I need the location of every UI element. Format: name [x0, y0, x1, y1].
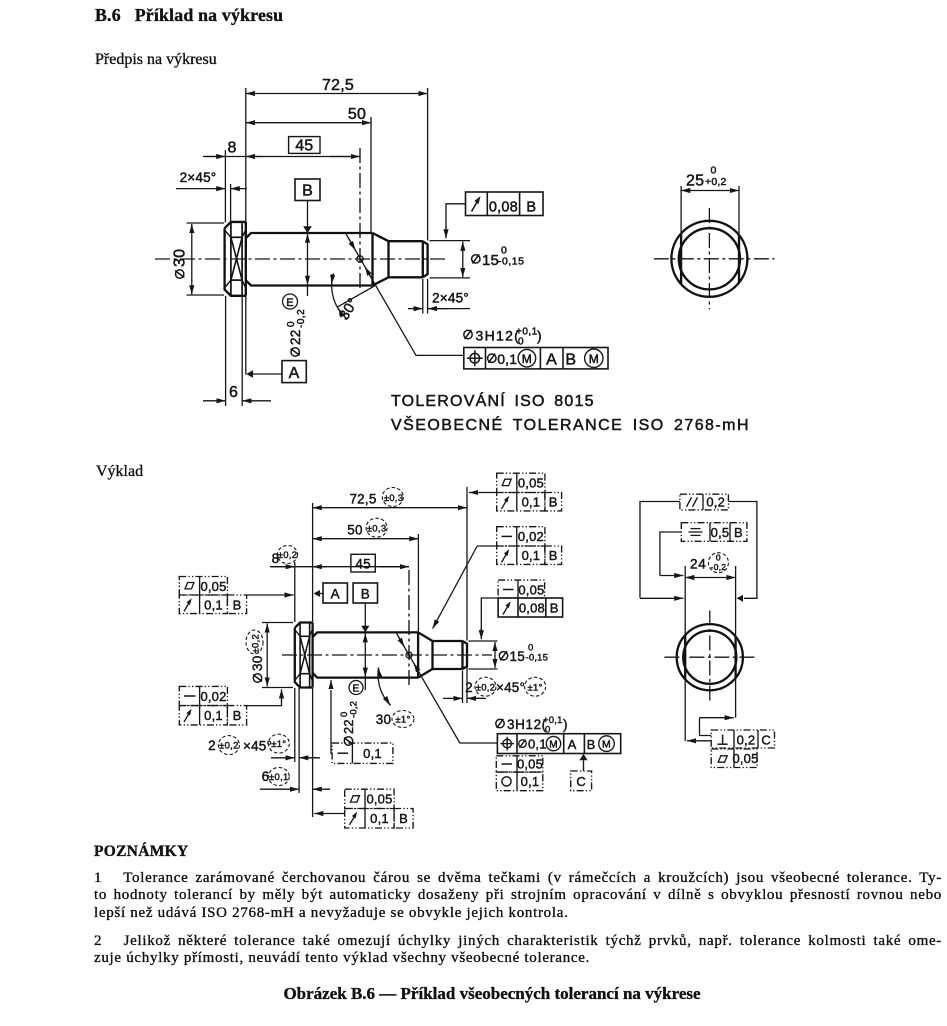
svg-text:±0,2: ±0,2: [219, 740, 239, 751]
d2 leader to position frame: [422, 678, 497, 743]
d2 chamfer dim left: [271, 757, 295, 759]
30deg ray: [338, 285, 376, 307]
d2 below frames straightness + roundness: [496, 756, 543, 791]
d2 leader frameA: [469, 492, 497, 494]
svg-text:72,5: 72,5: [322, 77, 354, 94]
circled M 2: [585, 349, 603, 367]
d2 diam22 cylinder: [313, 632, 419, 677]
shaft diam15 cylinder: [389, 241, 423, 277]
d2 leader frameB: [477, 545, 497, 547]
svg-text:15: 15: [482, 252, 499, 269]
svg-text:B: B: [565, 351, 576, 368]
dim 25: [681, 190, 739, 192]
svg-text:C: C: [761, 732, 771, 747]
datum A box: [282, 361, 306, 383]
svg-text:-0,15: -0,15: [526, 653, 549, 664]
frame3 flatness/runout bottom: [345, 789, 413, 828]
note 2: [94, 933, 942, 951]
d2 ext flange left: [294, 562, 296, 622]
svg-text:0,05: 0,05: [518, 476, 544, 491]
svg-text:): ): [537, 328, 542, 344]
chamfer 2x45 right ext lines: [422, 279, 424, 314]
svg-text:E: E: [286, 297, 294, 309]
svg-text:): ): [563, 717, 568, 732]
svg-text:B: B: [526, 199, 536, 215]
inclined hole axis: [346, 234, 376, 285]
svg-text:22: 22: [341, 719, 356, 734]
svg-text:0,05: 0,05: [366, 792, 392, 807]
svg-text:30°: 30°: [336, 296, 362, 324]
d2 dim diam15: [494, 642, 496, 668]
svg-text:M: M: [602, 739, 611, 751]
figure caption: [0, 984, 947, 1004]
d2 ext lines below flange: [294, 688, 296, 762]
d2 leader frame1: [247, 594, 294, 596]
extension line flange left face: [224, 150, 226, 223]
d2 leader parallel right + datum triangle: [728, 502, 757, 599]
svg-text:30: 30: [172, 249, 189, 267]
datum A lines: [225, 296, 227, 406]
svg-text:2: 2: [208, 738, 216, 753]
svg-text:A: A: [289, 365, 300, 382]
datum B box: [295, 179, 320, 201]
svg-text:±1°: ±1°: [395, 714, 410, 725]
svg-text:0,1: 0,1: [522, 495, 541, 510]
d2 datum A triangle: [314, 590, 320, 597]
30deg arc: [332, 273, 348, 319]
note 1: [94, 870, 942, 888]
d2 leader symmetry: [660, 532, 681, 576]
runout frame 0,08 B: [466, 192, 544, 216]
d2 datum B triangle: [361, 626, 369, 633]
d2 end view inner circle: [683, 631, 736, 684]
svg-text:B: B: [361, 586, 370, 601]
flange flat band edges: [231, 236, 242, 238]
diam symbol 15: [472, 254, 480, 263]
45 box: [289, 137, 320, 154]
svg-text:±0,2: ±0,2: [251, 634, 262, 654]
svg-text:0,1: 0,1: [528, 737, 547, 752]
svg-text:0: 0: [711, 165, 717, 177]
svg-text:8: 8: [227, 140, 236, 157]
d2 datum B stem: [364, 603, 366, 627]
d2 leader frameC: [481, 598, 498, 630]
POZNAMKY heading: [94, 843, 189, 861]
d2 bottom leader right flat: [700, 718, 712, 736]
svg-text:0,05: 0,05: [518, 582, 544, 597]
svg-text:25: 25: [686, 173, 704, 190]
svg-text:B: B: [587, 737, 596, 752]
d2 flange flat band edges: [300, 635, 310, 637]
edge at cone end: [387, 241, 389, 277]
d2 flange corner diagonals: [295, 630, 312, 680]
svg-text:B: B: [302, 183, 313, 200]
svg-text:0,08: 0,08: [519, 601, 545, 616]
svg-text:0,1: 0,1: [522, 548, 541, 563]
svg-text:±0,1: ±0,1: [269, 772, 289, 783]
subheading Vyklad: [96, 463, 143, 481]
rotated diam22: [286, 309, 307, 356]
svg-text:×45°: ×45°: [496, 680, 525, 695]
chamfer 2x45 right dim: [408, 308, 423, 310]
d2 end center lines: [664, 656, 755, 658]
svg-text:A: A: [546, 351, 557, 368]
svg-text:45: 45: [355, 556, 370, 571]
shaft diam22 cylinder: [246, 233, 373, 286]
d2 ext flange right: [312, 503, 314, 622]
svg-text:M: M: [522, 352, 532, 366]
d2 edge cone start: [417, 632, 419, 677]
d2 flats ext below: [684, 680, 686, 742]
svg-text:-0,15: -0,15: [498, 256, 524, 268]
svg-text:0,1: 0,1: [363, 746, 382, 761]
flat left: [680, 234, 682, 284]
svg-text:B: B: [734, 525, 743, 540]
svg-text:±0,3: ±0,3: [367, 523, 387, 534]
svg-text:0,1: 0,1: [204, 708, 223, 723]
d2 shaft flange outline: [295, 623, 313, 688]
datum A triangle: [246, 370, 253, 378]
svg-text:E: E: [352, 683, 359, 695]
d2 diam15 ext: [469, 640, 498, 642]
extension line right flange face: [245, 88, 247, 223]
svg-text:+0,2: +0,2: [705, 176, 727, 188]
dimension 72,5: [246, 93, 428, 95]
subheading Predpis: [95, 51, 217, 69]
svg-text:50: 50: [348, 106, 366, 123]
svg-text:0,2: 0,2: [737, 732, 756, 747]
svg-text:B: B: [549, 548, 558, 563]
svg-text:B: B: [549, 495, 558, 510]
svg-text:22: 22: [288, 330, 303, 345]
dimension 2x45 chamfer left: [176, 188, 225, 190]
d2 datum A box: [323, 583, 347, 603]
flange cross (flat indication): [231, 237, 242, 280]
d2 diam15 cylinder: [433, 641, 463, 669]
d2 30deg arc: [378, 668, 391, 706]
rotated 30deg: [336, 296, 362, 324]
center line: [155, 258, 448, 260]
svg-text:M: M: [589, 352, 599, 366]
chamfer edge line: [422, 241, 424, 277]
edge at cone start: [371, 233, 373, 286]
svg-text:0,02: 0,02: [518, 529, 544, 544]
leader to position frame: [376, 285, 464, 355]
d2 leader parallel left: [640, 502, 680, 599]
datum B triangle: [303, 226, 312, 233]
hole axis vertical center line: [359, 148, 361, 291]
extension line cone start: [370, 117, 372, 233]
d2 edge cone end: [431, 641, 433, 669]
diam symbol for 0,1: [488, 354, 496, 363]
frameA right: [497, 473, 562, 511]
d2 flat right: [734, 637, 736, 678]
frameB right: [497, 527, 562, 565]
d2 dim diam30: [262, 622, 293, 624]
d2 flats ext above: [684, 566, 686, 635]
svg-text:0,2: 0,2: [706, 495, 725, 510]
d2 leader straightness frame: [331, 690, 332, 753]
d2 end face: [463, 641, 468, 669]
d2 circled E: [349, 681, 363, 695]
svg-text:0: 0: [518, 337, 524, 348]
dim diam22 line: [307, 234, 309, 285]
d2 node circle: [406, 652, 412, 658]
leader from runout frame: [446, 204, 466, 228]
svg-text:2: 2: [465, 680, 473, 695]
d2 position frame: [497, 734, 620, 754]
svg-text:0,05: 0,05: [200, 579, 226, 594]
svg-text:C: C: [576, 774, 586, 789]
d2 chamfer edge: [461, 641, 463, 669]
d2 flat left: [684, 635, 686, 679]
end view inner circle: [679, 228, 740, 289]
d2 flange chamfer edges: [299, 623, 301, 688]
extension line shaft end: [427, 88, 429, 241]
dim 25 ext lines: [680, 186, 682, 240]
svg-text:±1°: ±1°: [527, 682, 542, 693]
extension line flange chamfer: [230, 184, 232, 223]
svg-text:0,1: 0,1: [497, 351, 517, 367]
circled M 1: [518, 349, 536, 367]
d2 hole axis: [397, 633, 423, 677]
flange corner chamfer diagonals: [225, 231, 245, 287]
svg-text:0,05: 0,05: [732, 751, 758, 766]
svg-text:3H12(: 3H12(: [476, 328, 521, 344]
svg-text:-0,2: -0,2: [296, 309, 307, 328]
svg-text:M: M: [549, 739, 558, 750]
flange chamfer edge lines: [230, 222, 232, 296]
dim diam15: [462, 242, 464, 278]
svg-text:3H12(: 3H12(: [507, 717, 547, 732]
d2 dim 72,5: [313, 507, 467, 509]
d2 dim 24: [685, 577, 735, 579]
d2 datum A stem: [320, 593, 323, 595]
shaft end face: [423, 241, 428, 277]
svg-text:2×45°: 2×45°: [432, 291, 469, 306]
svg-text:0,02: 0,02: [200, 689, 226, 704]
frameC right: [498, 580, 544, 598]
svg-text:±0,2: ±0,2: [278, 550, 298, 561]
d2 datum C: [579, 754, 587, 761]
position frame: [464, 348, 608, 369]
position symbol: [470, 353, 480, 363]
d2 cone: [418, 632, 432, 677]
d2 bottom leader left flat: [687, 740, 711, 742]
svg-text:B: B: [233, 708, 242, 723]
svg-text:0,1: 0,1: [204, 598, 223, 613]
svg-text:±0,2: ±0,2: [476, 682, 496, 693]
diam symbol 3H12: [464, 330, 472, 339]
svg-text:A: A: [568, 737, 577, 752]
svg-text:±0,3: ±0,3: [384, 493, 404, 504]
svg-text:VŠEOBECNÉ TOLERANCE ISO 2768-m: VŠEOBECNÉ TOLERANCE ISO 2768-mH: [391, 415, 750, 434]
d2 flange cross: [300, 636, 310, 673]
dimension 50: [246, 122, 371, 124]
diam15 extension lines: [430, 240, 471, 242]
dim diam30: [187, 222, 225, 224]
svg-text:72,5: 72,5: [349, 492, 376, 507]
svg-text:50: 50: [347, 523, 362, 538]
d2 rotated pm02: [251, 634, 262, 654]
d2 dia for diam15: [499, 651, 507, 660]
flat right: [738, 235, 740, 282]
frame symmetry: [681, 523, 747, 542]
svg-text:6: 6: [229, 384, 238, 401]
svg-text:45: 45: [295, 138, 313, 155]
svg-text:0,5: 0,5: [711, 525, 730, 540]
d2 center line: [282, 654, 492, 656]
svg-text:-0,2: -0,2: [349, 701, 360, 718]
d2 45 box: [351, 554, 375, 572]
svg-text:B: B: [399, 811, 408, 826]
d2 rotated diam30: [250, 656, 265, 683]
d2 dim diam22: [364, 633, 366, 677]
svg-text:0,08: 0,08: [489, 199, 518, 215]
circled E: [283, 294, 298, 309]
svg-text:×45°: ×45°: [243, 739, 272, 754]
frame parallelism: [680, 494, 729, 510]
dimension 8 / 45 line: [203, 156, 360, 158]
d2 dia for 3H12: [496, 719, 504, 728]
svg-text:0,1: 0,1: [370, 811, 389, 826]
svg-text:A: A: [331, 586, 340, 601]
heading B.6: [95, 5, 283, 26]
svg-text:B: B: [550, 601, 559, 616]
cone: [373, 233, 389, 286]
frame flatness bottom: [711, 749, 757, 768]
datum triangle at right flat: [737, 595, 743, 602]
d2 leader frame3: [314, 813, 345, 815]
svg-text:±1°: ±1°: [271, 739, 286, 750]
d2 dim 50: [313, 538, 419, 540]
shaft flange outline: [225, 222, 246, 296]
svg-text:TOLEROVÁNÍ ISO 8015: TOLEROVÁNÍ ISO 8015: [391, 391, 595, 410]
svg-text:0,1: 0,1: [521, 774, 540, 789]
frame perpendicularity: [711, 730, 774, 748]
datum B stem: [307, 201, 309, 228]
dimension 6: [203, 400, 226, 402]
svg-text:15: 15: [510, 649, 525, 664]
d2 hole axis center line: [408, 570, 410, 686]
frame1 flatness/runout left top: [179, 577, 246, 614]
frame2 straightness/runout left: [179, 686, 246, 724]
svg-text:2×45°: 2×45°: [180, 170, 217, 185]
dashed circles general tolerances: [382, 488, 403, 507]
svg-text:30: 30: [250, 656, 265, 671]
end view center lines: [654, 258, 775, 260]
svg-text:B: B: [233, 598, 242, 613]
straightness 0,1 frame: [332, 743, 393, 763]
d2 ext cone start: [417, 534, 419, 632]
d2 rotated diam22: [339, 701, 360, 745]
d2 chamfer dim right: [443, 697, 463, 699]
end view outer circle: [671, 221, 747, 297]
svg-text:24: 24: [690, 557, 707, 572]
node circle: [357, 256, 363, 262]
d2 dim 8 / 45: [270, 566, 409, 568]
svg-text:-0,2: -0,2: [711, 562, 727, 572]
svg-text:30: 30: [376, 712, 391, 727]
d2 datum B box: [353, 583, 377, 603]
svg-text:0,05: 0,05: [517, 756, 543, 771]
d2 dim 6: [260, 788, 299, 790]
rotated diam30: [172, 249, 189, 278]
d2 leader frame2: [247, 700, 282, 706]
d2 ext shaft end: [466, 487, 468, 641]
datum A stem: [253, 373, 283, 375]
d2 end view outer circle: [677, 624, 743, 690]
